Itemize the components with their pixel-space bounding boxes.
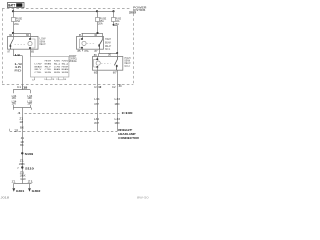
- label relay R2: [105, 39, 112, 51]
- lamp component left: bottom bar: [13, 108, 31, 110]
- svg-text:CENTER: CENTER: [129, 11, 137, 15]
- svg-text:20A: 20A: [14, 23, 19, 26]
- ground G1: [12, 188, 24, 193]
- label connector A: [122, 111, 134, 115]
- relay R3 pins below: [94, 71, 118, 74]
- svg-text:L33: L33: [115, 98, 121, 101]
- relay R2 switch: [99, 40, 102, 50]
- svg-text:BEAM: BEAM: [40, 40, 46, 43]
- svg-text:18RD: 18RD: [115, 122, 120, 125]
- svg-text:CTRL: CTRL: [35, 72, 43, 74]
- relay R1 pins below: [8, 49, 35, 57]
- fuse F2: [96, 11, 107, 33]
- svg-text:BK: BK: [20, 127, 24, 130]
- svg-text:RLY: RLY: [45, 66, 52, 68]
- wire: link bar to relay R3: [94, 52, 118, 57]
- connector line A dashed: [18, 112, 122, 115]
- FCM pins below: [32, 77, 68, 81]
- label: right branch wire: [27, 96, 33, 106]
- wire: relay R3 switch output down: [117, 70, 119, 131]
- labels below splice S2: [20, 172, 26, 181]
- svg-text:G10: G10: [20, 178, 26, 181]
- svg-text:J018: J018: [1, 195, 10, 199]
- wire: left output down: [22, 56, 24, 90]
- svg-text:LOW: LOW: [40, 39, 47, 41]
- module FCM box: [31, 57, 69, 78]
- splice S2: [17, 166, 34, 170]
- svg-text:RD: RD: [14, 69, 21, 72]
- relay R2 coil: [79, 38, 86, 49]
- svg-text:MODULE: MODULE: [69, 60, 77, 63]
- wire: relay R1 feed: [9, 32, 31, 40]
- relay R1 box: [8, 37, 39, 50]
- svg-text:CONNECTOR: CONNECTOR: [118, 136, 140, 140]
- svg-text:HIGH: HIGH: [62, 66, 69, 68]
- svg-text:8W-50: 8W-50: [137, 195, 149, 199]
- svg-text:RELAY: RELAY: [40, 43, 47, 46]
- ground G2: [28, 188, 41, 193]
- relay R3 coil: [94, 57, 101, 71]
- svg-text:BEAM: BEAM: [45, 63, 52, 66]
- wire: battery bus: [12, 10, 115, 12]
- labels between splices: [19, 159, 25, 165]
- label: component right (headlamp): [118, 128, 140, 140]
- pin texts above ground bar: [12, 182, 35, 184]
- connector pins at border crossing, left wire: [17, 86, 28, 89]
- label: power distribution center: [129, 5, 147, 14]
- lamp component left: top bar: [13, 85, 30, 108]
- svg-text:S110: S110: [25, 166, 34, 170]
- labels on ground wire below connector B: [20, 137, 24, 147]
- svg-text:S109: S109: [25, 152, 34, 156]
- svg-text:SENS: SENS: [45, 72, 52, 74]
- wire from BATT box to bus: [13, 8, 15, 12]
- svg-text:BEAM: BEAM: [62, 68, 69, 71]
- svg-text:87A: 87A: [85, 50, 89, 53]
- wire: ground lead down: [22, 108, 24, 184]
- svg-text:BEAM: BEAM: [35, 65, 42, 68]
- connector line B dashed: [10, 129, 118, 133]
- svg-text:HIGH: HIGH: [105, 39, 111, 41]
- svg-text:18VT: 18VT: [94, 122, 99, 125]
- labels on right wire: [115, 98, 121, 125]
- svg-text:RELAY: RELAY: [125, 62, 132, 65]
- label FCM: [69, 55, 77, 63]
- svg-text:NO.2: NO.2: [125, 66, 131, 68]
- svg-text:L33: L33: [115, 118, 121, 121]
- svg-text:B(+): B(+): [62, 64, 69, 66]
- svg-text:G301: G301: [16, 189, 25, 193]
- wire: relay R3 coil output down: [97, 70, 99, 131]
- wire: relay R2 feed: [79, 32, 103, 40]
- svg-text:RELAY: RELAY: [105, 45, 112, 48]
- relay R2 box: [77, 37, 104, 50]
- relay R3 box: [93, 57, 123, 71]
- svg-text:L34: L34: [94, 98, 100, 101]
- svg-text:SENS: SENS: [54, 72, 61, 74]
- label: ground wire code upper: [19, 117, 24, 129]
- svg-text:BEAM: BEAM: [54, 68, 60, 71]
- svg-text:BK: BK: [20, 144, 24, 147]
- svg-text:BEAM: BEAM: [105, 41, 111, 44]
- relay R1 coil: [28, 38, 35, 49]
- wire: fuse F3 jog to relay R3 column: [113, 24, 118, 54]
- label relay R1: [40, 39, 47, 47]
- svg-text:18V: 18V: [12, 104, 17, 106]
- svg-text:BEAM: BEAM: [125, 60, 131, 63]
- relay R3 switch: [114, 57, 117, 71]
- svg-text:18RD: 18RD: [115, 103, 120, 106]
- connector pins at border crossing, middle wire: [94, 86, 102, 89]
- label relay R3: [125, 58, 132, 68]
- svg-text:RLY: RLY: [35, 69, 43, 71]
- FCM internal pin texts: [35, 61, 69, 74]
- ground split bar: [14, 184, 32, 189]
- svg-text:FUSED: FUSED: [54, 61, 61, 63]
- labels on middle wire: [94, 98, 100, 125]
- node BATT A0 title box: [8, 3, 25, 8]
- relay R2 pins below: [78, 49, 100, 53]
- svg-text:C100: C100: [122, 111, 134, 115]
- connector pins at border crossing, right wire: [112, 85, 123, 89]
- label: wire L9 color code: [14, 63, 23, 73]
- relay R3 actuator dashed: [101, 63, 111, 65]
- label: left branch wire: [12, 96, 18, 106]
- svg-text:G302: G302: [32, 189, 41, 193]
- splice S1: [21, 152, 33, 156]
- svg-text:18VT: 18VT: [94, 103, 99, 106]
- svg-text:CTRL: CTRL: [45, 69, 52, 71]
- svg-text:B(+): B(+): [54, 64, 61, 66]
- svg-text:20A: 20A: [98, 23, 103, 26]
- svg-text:18R: 18R: [27, 98, 32, 100]
- relay R2 actuator dashed: [87, 43, 96, 45]
- fuse F1: [12, 11, 23, 33]
- svg-text:L34: L34: [94, 118, 100, 121]
- dashed box: power distribution center border: [2, 9, 134, 85]
- svg-text:18V: 18V: [12, 98, 17, 100]
- svg-text:HIGH: HIGH: [45, 61, 52, 63]
- relay R1 switch: [10, 40, 13, 50]
- svg-text:18R: 18R: [27, 104, 32, 106]
- svg-text:FUSED: FUSED: [62, 61, 69, 63]
- fuse F3: [112, 11, 122, 26]
- svg-text:NO.1: NO.1: [105, 49, 111, 51]
- svg-text:SENS: SENS: [62, 72, 69, 74]
- relay R1 actuator dashed: [15, 44, 27, 46]
- svg-text:BATT: BATT: [8, 3, 16, 7]
